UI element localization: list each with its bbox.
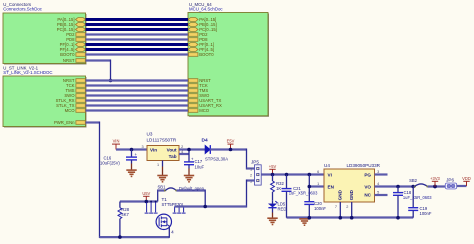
svg-text:7: 7 [335,205,337,209]
sheet entry MCO (MCU) [189,108,210,113]
sheet title U_MCU_64 [189,2,223,11]
resistor R28 4K7 [118,202,130,238]
svg-text:U5V: U5V [142,191,150,196]
sheet title U_Connectors [3,2,42,11]
svg-text:100nF: 100nF [314,206,326,211]
ground under U3 tab [157,176,167,182]
sheet entry PF[4..5] (Connectors) [60,47,86,52]
sheet entry MCO (ST_LINK) [65,108,86,113]
svg-text:1uF_X5R_0603: 1uF_X5R_0603 [403,195,432,200]
sheet entry SWO (MCU) [189,93,211,98]
svg-text:1: 1 [250,168,252,172]
junction node +5V [271,173,275,177]
sheet entry TCK (MCU) [189,83,208,88]
junction node GND7 rail [339,216,343,220]
ground under LD5 [267,218,277,224]
svg-text:U4: U4 [324,163,330,168]
svg-text:Tab: Tab [169,154,177,159]
sheet entry PB[0..15] (MCU) [188,22,217,27]
wire STLK_RX to USART_TX [86,99,189,101]
svg-text:NC: NC [364,193,371,198]
junction node R28 gate [118,235,122,239]
junction node EN branch top [308,173,312,177]
pin 7 U4 GND [335,202,340,218]
svg-text:10uF: 10uF [195,165,205,170]
junction node +3V3 [433,185,437,189]
capacitor C16 [100,150,138,171]
svg-text:VO: VO [364,184,371,189]
junction node C16/VIN [130,148,134,152]
svg-text:1: 1 [157,163,159,167]
wire D4 to JP5 [210,149,254,170]
svg-text:VIN: VIN [113,139,120,144]
pin 2 U3 [181,145,183,149]
svg-text:4K7: 4K7 [121,212,129,217]
svg-text:MCU_64.SchDoc: MCU_64.SchDoc [189,6,223,11]
junction node C17 [187,148,191,152]
sheet entry PD2 (Connectors) [66,32,85,37]
capacitor C17 [184,157,204,176]
jumper JP6 [445,177,456,189]
svg-text:BOOT0: BOOT0 [199,52,214,57]
bus PA[0..15] [86,18,189,21]
pin 4 T1 gate [169,226,174,238]
svg-text:LD1117S50TR: LD1117S50TR [147,138,177,143]
sheet entry TMS (ST_LINK) [66,88,86,93]
wire NRST [86,79,189,81]
ground under C16 [126,170,136,176]
svg-text:C17: C17 [195,159,203,164]
svg-text:1: 1 [317,182,319,186]
sheet symbol U_Connectors [3,13,87,65]
svg-text:SB2: SB2 [409,178,418,183]
sheet entry PF[0..1] (Connectors) [60,42,86,47]
bus PC[0..15] [86,28,189,31]
sheet entry PF[0..1] (MCU) [188,42,214,47]
wire SWO [86,94,189,96]
bus PF[4..5] [86,48,189,51]
svg-text:BOOT0: BOOT0 [60,52,75,57]
sheet entry PWR_ENn (ST_LINK) [54,120,85,125]
pin 6 U4 VI [317,170,319,174]
svg-text:VI: VI [328,172,332,177]
capacitor C20 [304,201,326,211]
junction node SB1/drain [203,205,207,209]
pin 3 U4 PG [375,170,388,174]
wire BOOT0 [86,53,189,55]
sheet entry NRST (Connectors) [63,58,85,63]
junction node C19 [411,185,415,189]
svg-text:MCO: MCO [199,108,210,113]
junction node C18 rail [396,216,400,220]
sheet entry PF[4..5] (MCU) [188,47,214,52]
wire JP5 pin3 to T1 drain [205,180,254,208]
svg-text:Vout: Vout [167,148,177,153]
power port +5V [269,164,277,174]
wire T1 drain [175,205,206,207]
svg-text:PWR_ENn: PWR_ENn [54,120,75,125]
ground on rail [299,219,309,225]
svg-text:10uF(25V): 10uF(25V) [100,161,120,166]
sheet entry STLK_TX (ST_LINK) [56,103,85,108]
junction node C18 [396,185,400,189]
wire +5V rail JP5 pin2 to U4 VI [261,173,324,175]
sheet entry USART_TX (MCU) [189,98,222,103]
diode D4 STPS2L30A [202,138,229,162]
svg-text:EN: EN [328,184,335,189]
wire PD8 [86,38,189,40]
svg-text:GND: GND [338,189,343,200]
svg-text:E5V: E5V [227,139,235,144]
svg-text:JP5: JP5 [251,160,259,165]
sheet entry SWO (ST_LINK) [64,93,85,98]
wire TCK [86,84,189,86]
sheet entry USART_RX (MCU) [189,103,222,108]
wire STLK_TX to USART_RX [86,104,189,106]
resistor R32 1K [271,175,285,201]
svg-text:1K: 1K [276,186,281,191]
svg-text:Vin: Vin [150,148,157,153]
pin 1 U4 EN [317,182,319,186]
svg-text:2: 2 [250,174,252,178]
sheet entry TCK (ST_LINK) [66,83,85,88]
power port VDD [462,176,471,186]
svg-text:Connectors.SchDoc: Connectors.SchDoc [3,6,42,11]
sheet entry BOOT0 (Connectors) [60,52,85,57]
svg-text:RED: RED [278,206,287,211]
regulator U3 LD1117S50TR [147,132,180,161]
capacitor C19 [408,187,432,218]
wire ground rail [287,216,414,218]
wire MCO [86,109,189,111]
svg-text:+5V: +5V [269,164,277,169]
sheet entry TMS (MCU) [189,88,209,93]
pin 4 U3 [179,150,189,162]
wire U3 Vout to D4 [179,148,205,150]
sheet entry PD2 (MCU) [189,32,209,37]
junction node GND2 rail [350,216,354,220]
svg-text:ST_LINK_V2-1.SCHDOC: ST_LINK_V2-1.SCHDOC [3,70,52,75]
bus PF[0..1] [86,43,189,46]
jumper JP5 [250,160,261,185]
junction NRST [109,79,113,83]
svg-text:1uF_X5R_0603: 1uF_X5R_0603 [289,191,318,196]
svg-text:100nF: 100nF [420,211,432,216]
sheet entry PC[0..15] (Connectors) [57,27,86,32]
power port U5V [142,191,150,201]
sheet symbol U_MCU_64 [188,13,269,117]
transistor T1 STT5PF30L [145,197,186,229]
junction node C20 rail [308,216,312,220]
sheet entry PB[0..15] (Connectors) [57,22,85,27]
svg-text:STPS2L30A: STPS2L30A [205,156,228,161]
sheet entry PA[0..15] (Connectors) [57,17,85,22]
power port +3V3 [430,176,440,186]
wire U4 VO rail [375,185,415,187]
svg-text:JP6: JP6 [446,177,454,182]
svg-text:2: 2 [346,205,348,209]
power port VIN [112,139,120,150]
svg-text:LD39050PU33R: LD39050PU33R [347,163,381,168]
wire SB2 to JP6 [428,185,446,187]
svg-text:SB1: SB1 [158,185,167,190]
svg-text:U3: U3 [147,132,153,137]
sheet entry NRST (ST_LINK) [63,78,85,83]
sheet entry PA[0..15] (MCU) [188,17,216,22]
wire PWR_ENn [86,122,170,238]
svg-text:NRST: NRST [63,58,75,63]
LED LD5 RED [268,200,286,218]
wire TMS [86,89,189,91]
svg-text:Default_open: Default_open [179,186,205,191]
junction node U5V [145,200,149,204]
pin 1 U3 tab to ground [157,161,163,176]
ground under C17 [184,176,194,182]
sheet entry STLK_RX (ST_LINK) [56,98,86,103]
pin 2 U4 GND [346,202,351,218]
svg-text:3: 3 [142,145,144,149]
capacitor C21 [282,175,319,218]
sheet entry PD8 (Connectors) [66,37,85,42]
sheet title U_ST_LINK_V2-1 [3,66,52,75]
svg-text:PG: PG [364,172,371,177]
regulator U4 LD39050PU33R [324,163,381,202]
wire VIN to U3 Vin [116,148,147,150]
junction dots T1 source pins [146,201,185,208]
pin 4 U4 VO [377,182,379,186]
solder bridge SB2 [409,178,428,187]
pin 3 U3 [142,145,144,149]
sheet entry BOOT0 (MCU) [189,52,215,57]
svg-text:+: + [135,152,138,157]
sheet entry PD8 (MCU) [189,37,209,42]
svg-text:6: 6 [317,170,319,174]
wire JP6 to VDD [457,185,467,187]
pin 5 U4 NC [375,191,388,195]
svg-text:VDD: VDD [462,176,471,181]
junction node E5V [229,148,233,152]
solder bridge SB1 [158,185,206,207]
wire EN branch [309,175,324,218]
power port E5V [227,139,235,150]
sheet entry PC[0..15] (MCU) [188,27,217,32]
wire U5V/T1 source [120,200,158,202]
sheet symbol U_ST_LINK_V2-1 [3,76,87,128]
svg-text:4: 4 [171,230,174,235]
junction node EN [308,185,312,189]
wire NRST from Connectors [86,60,111,81]
svg-text:5: 5 [377,191,379,195]
svg-text:GND: GND [349,189,354,200]
junction node C21 [285,173,289,177]
svg-text:D4: D4 [202,138,208,144]
svg-text:3: 3 [377,170,379,174]
svg-text:+3V3: +3V3 [430,176,440,181]
wire PD2 [86,33,189,35]
sheet entry NRST (MCU) [189,78,212,83]
capacitor C18 [393,187,432,218]
bus PB[0..15] [86,23,189,26]
svg-text:MCO: MCO [65,108,76,113]
